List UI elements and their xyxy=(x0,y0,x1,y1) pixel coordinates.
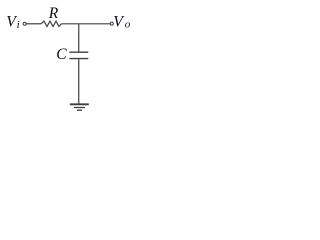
svg-text:i: i xyxy=(17,19,20,31)
svg-text:V: V xyxy=(113,13,125,30)
svg-text:R: R xyxy=(48,5,59,22)
svg-text:C: C xyxy=(56,46,67,63)
svg-text:o: o xyxy=(125,18,131,30)
